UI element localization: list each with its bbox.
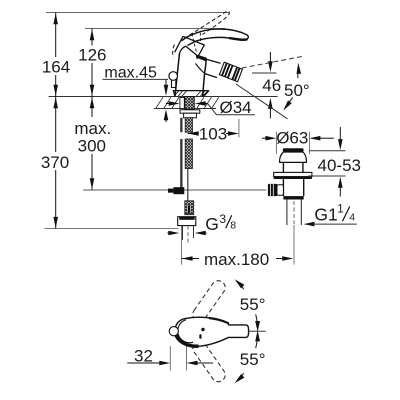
svg-text:max.: max. bbox=[74, 119, 111, 138]
svg-text:3: 3 bbox=[219, 212, 226, 226]
svg-text:1: 1 bbox=[337, 203, 343, 215]
svg-text:G: G bbox=[205, 214, 219, 234]
svg-text:max.180: max.180 bbox=[204, 250, 269, 269]
svg-text:300: 300 bbox=[78, 136, 106, 155]
svg-text:8: 8 bbox=[230, 220, 236, 232]
svg-text:4: 4 bbox=[349, 212, 355, 224]
svg-text:40-53: 40-53 bbox=[318, 156, 361, 175]
svg-text:Ø63: Ø63 bbox=[276, 129, 308, 148]
svg-text:Ø34: Ø34 bbox=[220, 98, 252, 117]
svg-text:32: 32 bbox=[134, 346, 153, 365]
svg-text:164: 164 bbox=[42, 57, 70, 76]
svg-text:55°: 55° bbox=[240, 295, 266, 314]
svg-text:103: 103 bbox=[199, 124, 227, 143]
svg-text:max.45: max.45 bbox=[104, 64, 157, 81]
svg-text:46: 46 bbox=[262, 76, 281, 95]
svg-text:50°: 50° bbox=[284, 81, 310, 100]
svg-text:55°: 55° bbox=[240, 350, 266, 369]
svg-text:G1: G1 bbox=[314, 205, 337, 225]
svg-text:370: 370 bbox=[41, 153, 69, 172]
svg-text:126: 126 bbox=[78, 46, 106, 65]
